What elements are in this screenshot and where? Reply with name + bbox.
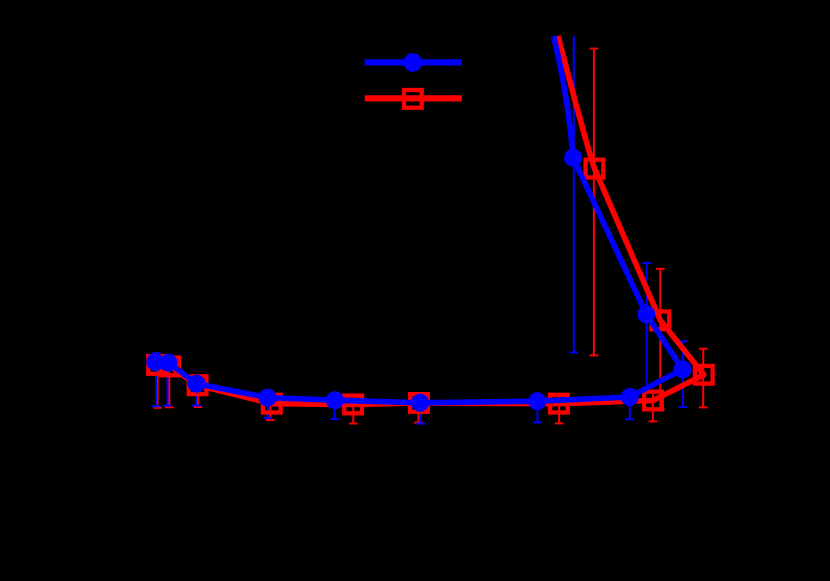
red square 4 xyxy=(263,395,281,413)
blue error bar 8 xyxy=(626,391,635,419)
blue circle 7 xyxy=(528,392,546,410)
red error bar 10 xyxy=(656,269,665,409)
blue error bar 9 xyxy=(679,341,688,407)
blue error bar 2 xyxy=(163,355,172,406)
red error bar 4 xyxy=(266,397,275,420)
blue error bar 6 xyxy=(416,397,425,424)
blue circle 3 xyxy=(188,375,206,393)
blue circle 10 xyxy=(637,305,655,323)
red square 9 xyxy=(695,366,713,384)
red square 1 xyxy=(148,356,166,374)
red square 3 xyxy=(189,376,207,394)
blue circle 4 xyxy=(259,389,277,407)
legend red entry xyxy=(365,90,462,108)
red square 8 xyxy=(644,392,662,410)
red square 10 xyxy=(652,312,670,330)
red error bar 8 xyxy=(649,394,658,421)
red curve xyxy=(157,36,704,405)
blue error bar 7 xyxy=(533,395,542,422)
red error bar 7 xyxy=(555,397,564,423)
red error bar 2 xyxy=(165,359,174,407)
blue circle 8 xyxy=(621,388,639,406)
blue error bar 11 xyxy=(570,36,579,353)
red square 2 xyxy=(161,358,179,376)
red square 6 xyxy=(410,394,428,412)
blue circle 6 xyxy=(411,394,429,412)
blue error bar 3 xyxy=(192,378,201,406)
red error bar 11 xyxy=(590,49,599,356)
red error bar 5 xyxy=(349,398,358,424)
blue circle 1 xyxy=(146,353,164,371)
red square 7 xyxy=(550,395,568,413)
blue circle 5 xyxy=(326,391,344,409)
blue error bar 5 xyxy=(330,394,339,419)
red error bar 3 xyxy=(194,379,203,407)
red error bar 6 xyxy=(414,397,423,423)
blue error bar 4 xyxy=(264,392,273,418)
red error bar 1 xyxy=(153,358,162,408)
legend blue entry xyxy=(365,53,462,72)
blue circle 2 xyxy=(160,354,178,372)
red square 5 xyxy=(344,396,362,414)
blue circle 11 xyxy=(564,149,582,167)
blue error bar 1 xyxy=(152,353,161,406)
blue circle 9 xyxy=(674,360,692,378)
blue curve xyxy=(155,36,682,403)
red square 11 xyxy=(586,160,604,178)
blue error bar 10 xyxy=(642,263,651,388)
red error bar 9 xyxy=(699,349,708,408)
